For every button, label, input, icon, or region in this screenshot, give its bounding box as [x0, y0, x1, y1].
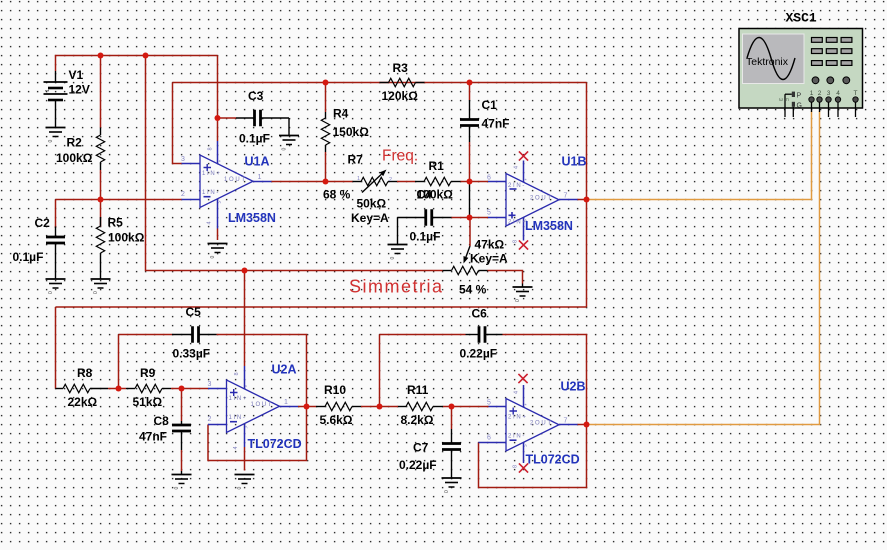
svg-text:2IN-: 2IN-	[508, 183, 526, 189]
svg-text:1: 1	[810, 90, 814, 97]
svg-text:1: 1	[45, 89, 51, 92]
svg-text:C5: C5	[186, 305, 202, 319]
svg-text:0.22µF: 0.22µF	[399, 458, 437, 472]
svg-text:8: 8	[513, 465, 519, 468]
svg-text:4: 4	[836, 90, 840, 97]
svg-text:C2: C2	[35, 216, 51, 230]
svg-text:47nF: 47nF	[482, 117, 510, 131]
svg-text:U2A: U2A	[272, 363, 297, 377]
svg-text:1: 1	[284, 399, 288, 406]
svg-text:2OUT: 2OUT	[530, 195, 553, 201]
svg-text:8: 8	[208, 147, 214, 150]
svg-text:TL072CD: TL072CD	[526, 453, 580, 467]
svg-text:C3: C3	[248, 89, 264, 103]
svg-text:100kΩ: 100kΩ	[108, 231, 145, 245]
svg-text:7: 7	[564, 192, 568, 199]
svg-text:U1A: U1A	[245, 155, 270, 169]
svg-text:Simmetria: Simmetria	[349, 277, 444, 297]
svg-text:5: 5	[487, 400, 491, 407]
svg-text:R8: R8	[77, 366, 93, 380]
svg-text:47nF: 47nF	[139, 430, 167, 444]
svg-text:6: 6	[487, 175, 491, 182]
svg-text:0: 0	[390, 257, 396, 260]
svg-text:8: 8	[234, 372, 240, 375]
svg-text:1IN+: 1IN+	[229, 396, 249, 402]
svg-text:68 %: 68 %	[323, 188, 351, 202]
svg-text:0.1µF: 0.1µF	[410, 230, 441, 244]
svg-text:U1B: U1B	[562, 155, 587, 169]
svg-text:1OUT: 1OUT	[251, 402, 274, 408]
svg-text:2IN+: 2IN+	[508, 414, 528, 420]
svg-text:120kΩ: 120kΩ	[382, 89, 419, 103]
svg-text:0: 0	[210, 256, 216, 259]
svg-text:47kΩ: 47kΩ	[475, 238, 505, 252]
svg-text:R4: R4	[333, 107, 349, 121]
svg-text:100kΩ: 100kΩ	[56, 151, 93, 165]
svg-text:LM358N: LM358N	[228, 211, 276, 225]
svg-text:0: 0	[48, 140, 54, 143]
svg-text:V1: V1	[69, 68, 84, 82]
svg-text:C6: C6	[472, 307, 488, 321]
svg-text:2IN-: 2IN-	[508, 434, 526, 440]
svg-text:n: n	[786, 97, 789, 103]
svg-text:5.6kΩ: 5.6kΩ	[320, 413, 353, 427]
svg-text:*: *	[525, 179, 531, 181]
svg-text:Tektronix: Tektronix	[746, 56, 789, 68]
svg-text:R2: R2	[67, 136, 83, 150]
svg-text:R7: R7	[348, 153, 364, 167]
svg-text:>: >	[218, 201, 224, 204]
svg-text:8: 8	[513, 240, 519, 243]
svg-text:1IN-: 1IN-	[229, 415, 247, 421]
svg-text:2: 2	[208, 416, 212, 423]
svg-text:R10: R10	[324, 383, 346, 397]
svg-text:5: 5	[487, 210, 491, 217]
svg-text:TL072CD: TL072CD	[248, 437, 302, 451]
svg-text:3: 3	[827, 90, 831, 97]
svg-text:0.33µF: 0.33µF	[173, 347, 211, 361]
svg-text:4: 4	[514, 166, 520, 169]
svg-text:0.1µF: 0.1µF	[13, 250, 44, 264]
svg-text:>: >	[244, 426, 250, 429]
svg-text:4: 4	[207, 221, 213, 224]
svg-text:U2B: U2B	[561, 380, 586, 394]
svg-text:6: 6	[487, 435, 491, 442]
svg-text:150kΩ: 150kΩ	[333, 125, 370, 139]
svg-text:G: G	[797, 103, 802, 110]
svg-text:0: 0	[237, 487, 243, 490]
svg-text:4: 4	[514, 391, 520, 394]
svg-text:*: *	[525, 404, 531, 406]
svg-text:54 %: 54 %	[459, 283, 487, 297]
svg-text:1IN+: 1IN+	[202, 171, 222, 177]
svg-text:0.1µF: 0.1µF	[239, 132, 270, 146]
svg-text:22kΩ: 22kΩ	[68, 395, 98, 409]
svg-text:C7: C7	[413, 441, 429, 455]
svg-text:2: 2	[818, 90, 822, 97]
svg-text:2OUT: 2OUT	[530, 420, 553, 426]
svg-text:51kΩ: 51kΩ	[133, 395, 163, 409]
svg-text:3: 3	[181, 156, 185, 163]
svg-text:1: 1	[258, 174, 262, 181]
svg-text:C1: C1	[482, 98, 498, 112]
svg-text:1IN-: 1IN-	[202, 190, 220, 196]
svg-text:C8: C8	[154, 414, 170, 428]
svg-text:C4: C4	[417, 188, 433, 202]
svg-text:Freq.: Freq.	[382, 148, 418, 165]
svg-text:R1: R1	[429, 159, 445, 173]
svg-text:4: 4	[233, 446, 239, 449]
svg-text:3: 3	[208, 381, 212, 388]
svg-text:0: 0	[444, 490, 450, 493]
svg-text:>: >	[524, 444, 530, 447]
svg-text:XSC1: XSC1	[786, 11, 817, 26]
svg-text:Key=A: Key=A	[470, 252, 508, 266]
svg-text:0: 0	[93, 291, 99, 294]
svg-text:1OUT: 1OUT	[224, 177, 247, 183]
svg-text:0: 0	[48, 291, 54, 294]
svg-text:Key=A: Key=A	[351, 211, 389, 225]
svg-text:0: 0	[282, 148, 288, 151]
svg-text:0: 0	[174, 487, 180, 490]
svg-text:2: 2	[181, 191, 185, 198]
svg-text:ω: ω	[779, 97, 783, 103]
svg-text:0.22µF: 0.22µF	[460, 347, 498, 361]
svg-text:7: 7	[564, 417, 568, 424]
svg-text:LM358N: LM358N	[525, 219, 573, 233]
svg-text:50kΩ: 50kΩ	[357, 197, 387, 211]
svg-text:R11: R11	[407, 383, 429, 397]
svg-text:R5: R5	[108, 216, 124, 230]
svg-text:*: *	[245, 385, 251, 387]
svg-text:1: 1	[357, 176, 360, 182]
svg-text:T: T	[854, 90, 858, 97]
svg-text:2: 2	[389, 177, 392, 183]
svg-text:0: 0	[515, 299, 521, 302]
svg-text:12V: 12V	[69, 83, 90, 97]
svg-text:R9: R9	[140, 366, 156, 380]
svg-text:8.2kΩ: 8.2kΩ	[401, 413, 434, 427]
svg-text:P: P	[797, 93, 802, 100]
svg-text:R3: R3	[393, 61, 409, 75]
svg-text:*: *	[219, 160, 225, 162]
